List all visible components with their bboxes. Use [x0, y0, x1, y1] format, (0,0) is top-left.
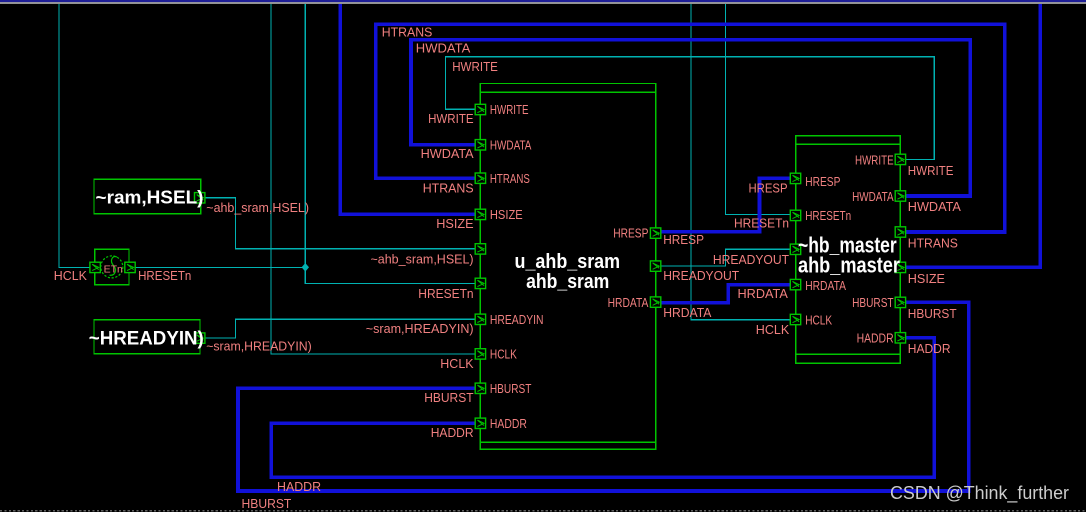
pin u_ahb_sram HSEL — [475, 244, 485, 254]
pin ahb_master HBURST — [895, 297, 905, 307]
pin clock symbol left — [90, 262, 100, 272]
svg-text:HTRANS: HTRANS — [490, 171, 530, 186]
svg-text:HWRITE: HWRITE — [908, 163, 954, 178]
window bottom dashed border — [0, 510, 1086, 512]
pin u_ahb_sram HTRANS — [475, 173, 485, 183]
svg-text:HTRANS: HTRANS — [382, 24, 433, 39]
wire HCLK trunk to ahb_master — [691, 4, 796, 320]
svg-text:HWRITE: HWRITE — [490, 102, 529, 117]
svg-text:HTRANS: HTRANS — [908, 235, 958, 250]
svg-text:HRESP: HRESP — [749, 181, 788, 196]
pin u_ahb_sram HWDATA — [475, 140, 485, 150]
svg-text:~sram,HREADYIN): ~sram,HREADYIN) — [206, 339, 312, 354]
pin u_ahb_sram HRDATA — [650, 297, 660, 307]
pin ahb_master HRESP — [790, 173, 800, 183]
pin clock symbol right — [125, 262, 135, 272]
svg-text:~HREADYIN): ~HREADYIN) — [89, 329, 204, 350]
svg-text:u_ahb_sram: u_ahb_sram — [515, 251, 621, 273]
svg-text:HCLK: HCLK — [440, 356, 474, 371]
svg-text:HRESETn: HRESETn — [138, 268, 191, 283]
pin u_ahb_sram HREADYOUT — [650, 261, 660, 271]
svg-text:HWRITE: HWRITE — [855, 152, 894, 167]
svg-text:HREADYOUT: HREADYOUT — [713, 252, 789, 267]
svg-text:HCLK: HCLK — [490, 347, 517, 362]
wire HWRITE net — [446, 57, 935, 160]
wire HREADYOUT net — [655, 249, 796, 266]
svg-text:HRDATA: HRDATA — [738, 286, 789, 301]
wire HRESETn from clock symbol to junction — [130, 266, 305, 268]
wire HREADYIN net — [200, 319, 480, 338]
svg-text:HWDATA: HWDATA — [490, 138, 532, 153]
pin ram,HSEL port — [195, 193, 205, 203]
svg-text:HBURST: HBURST — [424, 390, 473, 405]
svg-text:HRESP: HRESP — [663, 232, 704, 247]
svg-text:HADDR: HADDR — [431, 425, 474, 440]
pin ahb_master HADDR — [895, 333, 905, 343]
pin u_ahb_sram HRESP — [650, 228, 660, 238]
svg-text:HBURST: HBURST — [852, 295, 894, 310]
wire HCLK trunk to u_ahb_sram — [271, 4, 480, 354]
pin u_ahb_sram HRESETn — [475, 278, 485, 288]
wire HBURST bus — [238, 302, 969, 491]
window top border (gray line) — [0, 2, 1086, 4]
pin u_ahb_sram HWRITE — [475, 104, 485, 114]
svg-text:HREADYIN: HREADYIN — [490, 312, 544, 327]
svg-text:~sram,HREADYIN): ~sram,HREADYIN) — [366, 321, 474, 336]
svg-text:HBURST: HBURST — [490, 381, 532, 396]
svg-text:HCLK: HCLK — [756, 322, 790, 337]
svg-text:HCLK: HCLK — [54, 268, 87, 283]
svg-text:HRDATA: HRDATA — [805, 278, 846, 293]
svg-text:HWRITE: HWRITE — [428, 111, 474, 126]
port box HREADYIN — [94, 320, 200, 354]
wire HSIZE bus right — [900, 4, 1040, 268]
wire HRESP bus — [655, 178, 796, 231]
svg-text:HRESETn: HRESETn — [734, 216, 789, 231]
pin ahb_master HCLK — [790, 314, 800, 324]
svg-text:ahb_sram: ahb_sram — [526, 271, 609, 293]
wire HTRANS bus — [376, 24, 1005, 232]
port box ram,HSEL — [94, 179, 201, 214]
wire HWDATA bus — [411, 40, 970, 196]
svg-text:CSDN @Think_further: CSDN @Think_further — [890, 483, 1069, 504]
pin ahb_master HRESETn — [790, 210, 800, 220]
pin ahb_master HTRANS — [895, 227, 905, 237]
block ahb_master — [796, 136, 901, 364]
pin ahb_master HRDATA — [790, 279, 800, 289]
wire HSIZE bus left — [340, 4, 480, 215]
svg-text:HADDR: HADDR — [490, 416, 527, 431]
clock generator integral curve — [110, 257, 118, 276]
svg-text:~ahb_sram,HSEL): ~ahb_sram,HSEL) — [206, 200, 309, 215]
svg-text:HSIZE: HSIZE — [490, 207, 523, 222]
wire HRDATA bus — [655, 285, 796, 303]
svg-text:HADDR: HADDR — [857, 331, 894, 346]
svg-text:HRDATA: HRDATA — [608, 295, 649, 310]
junction HRESETn node — [302, 263, 309, 272]
wire HADDR bus — [271, 338, 934, 477]
svg-text:HADDR: HADDR — [277, 479, 321, 494]
pin u_ahb_sram HREADYIN — [475, 314, 485, 324]
svg-text:HWDATA: HWDATA — [852, 189, 894, 204]
svg-text:HREADYOUT: HREADYOUT — [663, 268, 739, 283]
svg-text:HRESETn: HRESETn — [418, 286, 473, 301]
svg-text:HADDR: HADDR — [908, 341, 951, 356]
svg-text:HWDATA: HWDATA — [416, 40, 471, 55]
svg-text:HTRANS: HTRANS — [423, 180, 474, 195]
block u_ahb_sram (ahb_sram) — [480, 84, 655, 450]
wire HRESETn vertical trunk — [305, 4, 480, 284]
pin ahb_master HREADYOUT — [790, 244, 800, 254]
svg-text:HSIZE: HSIZE — [436, 216, 474, 231]
svg-text:HSIZE: HSIZE — [908, 271, 946, 286]
svg-text:HRESP: HRESP — [805, 174, 840, 189]
wire HSEL net — [200, 198, 480, 249]
svg-text:HCLK: HCLK — [805, 312, 832, 327]
window top border (navy strip) — [0, 0, 1086, 2]
pin HREADYIN port — [195, 333, 205, 343]
svg-text:HRDATA: HRDATA — [663, 305, 711, 320]
svg-text:~ram,HSEL): ~ram,HSEL) — [96, 187, 204, 207]
svg-text:HWRITE: HWRITE — [452, 59, 498, 74]
svg-text:~ahb_sram,HSEL): ~ahb_sram,HSEL) — [371, 252, 474, 267]
svg-text:HWDATA: HWDATA — [421, 146, 474, 161]
clock generator dashed circle — [101, 256, 123, 278]
svg-text:HWDATA: HWDATA — [908, 199, 961, 214]
svg-text:HBURST: HBURST — [908, 306, 957, 321]
pin ahb_master HWRITE — [895, 154, 905, 164]
pin ahb_master HWDATA — [895, 191, 905, 201]
svg-text:HRESP: HRESP — [613, 226, 648, 241]
pin u_ahb_sram HADDR — [475, 418, 485, 428]
wire HRESETn trunk to ahb_master — [725, 4, 796, 215]
clock generator symbol box — [95, 249, 129, 284]
svg-text:ETn: ETn — [104, 263, 123, 275]
svg-text:HBURST: HBURST — [242, 496, 292, 511]
pin u_ahb_sram HBURST — [475, 383, 485, 393]
pin ahb_master HSIZE — [895, 262, 905, 272]
svg-text:ahb_master: ahb_master — [798, 253, 900, 278]
pin u_ahb_sram HCLK — [475, 349, 485, 359]
pin u_ahb_sram HSIZE — [475, 209, 485, 219]
wire HCLK vertical to clock symbol — [59, 4, 95, 268]
svg-text:HRESETn: HRESETn — [805, 208, 851, 223]
